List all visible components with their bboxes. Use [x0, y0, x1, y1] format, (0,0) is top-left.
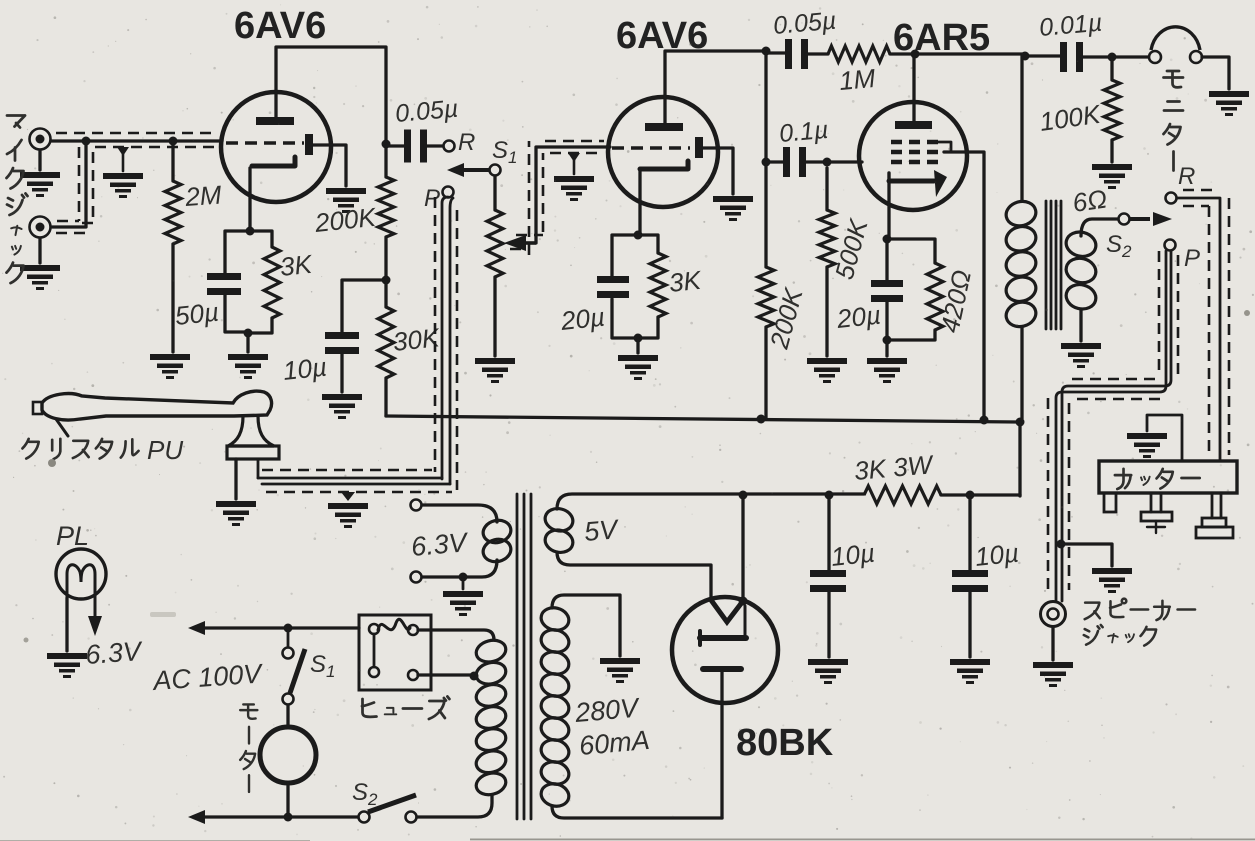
wire plate V2 [665, 51, 766, 123]
shield dashes [435, 197, 457, 490]
svg-text:6AV6: 6AV6 [234, 5, 326, 47]
wire [286, 705, 289, 727]
capacitor 20u V2 [597, 276, 629, 298]
svg-text:50µ: 50µ [173, 297, 220, 331]
wire wiper to V2 grid [536, 147, 610, 243]
wire [52, 141, 86, 227]
svg-text:10µ: 10µ [973, 538, 1020, 572]
label 500K [829, 215, 874, 283]
cutter leg 3 [1196, 493, 1233, 538]
ground [1127, 433, 1167, 458]
wire plate V1 [276, 47, 386, 141]
label 6AV6 V1 [234, 5, 326, 47]
wire [638, 235, 658, 253]
shield dashes [56, 133, 216, 233]
node junction [82, 137, 91, 146]
label S2 mains [352, 779, 378, 809]
ground [1092, 164, 1132, 189]
terminal S1 [490, 165, 501, 176]
label 20u V3 [834, 300, 882, 335]
tube 80BK envelope [672, 597, 778, 703]
node [634, 231, 643, 240]
ground [950, 659, 990, 684]
terminal S2 tap [1119, 214, 1130, 225]
OPT core [1046, 201, 1061, 329]
wire grid V3 [827, 160, 862, 163]
capacitor 0.05u C1 [404, 130, 427, 163]
capacitor 0.01u [1060, 42, 1083, 72]
OPT secondary coil [1064, 229, 1099, 312]
terminal P out [1165, 240, 1176, 251]
wire [885, 239, 888, 280]
capacitor 0.05u C2 [785, 39, 808, 69]
wire [246, 333, 249, 352]
label 6AR5 V3 [893, 17, 990, 59]
rect winding 5V coil [543, 506, 575, 556]
wire [1020, 327, 1023, 419]
wire [384, 280, 387, 307]
wire [493, 277, 496, 356]
wire [313, 145, 346, 186]
wire [1025, 54, 1060, 57]
resistor 2M [165, 181, 181, 244]
80BK filament [711, 600, 743, 622]
wire [885, 302, 888, 340]
svg-text:80BK: 80BK [736, 722, 834, 764]
svg-text:P: P [424, 185, 440, 212]
V3 cathode [889, 170, 947, 197]
svg-text:P: P [1184, 245, 1200, 272]
switch S2 arrow [1130, 212, 1172, 226]
svg-text:3K: 3K [278, 249, 314, 282]
node [284, 813, 293, 822]
tube V2 envelope [608, 97, 718, 207]
wire P down [1056, 251, 1171, 601]
tube V1 6AV6 envelope [221, 92, 331, 202]
V3 screen bracket [938, 142, 951, 152]
ground [1033, 662, 1073, 687]
resistor 1M [828, 46, 890, 62]
resistor 3K V2 [650, 253, 666, 317]
wire [720, 672, 723, 818]
wire [248, 318, 272, 333]
ground [475, 358, 515, 383]
ground [322, 394, 362, 419]
node [246, 227, 255, 236]
resistor 200K V2 [758, 267, 774, 327]
switch S2 mains [359, 795, 417, 823]
shield ground tap [568, 153, 580, 174]
label S2 [1106, 231, 1132, 261]
svg-text:6.3V: 6.3V [410, 527, 471, 562]
label 3K V2 [667, 265, 703, 298]
mic jack J1 [30, 129, 51, 150]
wire [941, 493, 1020, 496]
wire [422, 560, 497, 577]
V2 plate [645, 123, 683, 131]
node [470, 672, 479, 681]
svg-text:20µ: 20µ [558, 302, 606, 337]
svg-text:6.3V: 6.3V [84, 636, 144, 670]
wire [766, 160, 783, 163]
node [762, 158, 771, 167]
wire [422, 505, 497, 522]
node [382, 140, 391, 149]
wire [340, 354, 343, 392]
capacitor 0.1u [783, 147, 806, 177]
label speaker jack [1084, 599, 1195, 646]
wire [417, 795, 492, 817]
PT primary coil [474, 637, 508, 797]
node [966, 491, 975, 500]
label 10u psu1 [829, 538, 876, 572]
node [1021, 52, 1030, 61]
ground [1209, 91, 1249, 116]
wire [384, 237, 387, 280]
ground [554, 176, 594, 201]
wire [225, 231, 250, 273]
shield dashes wiper [510, 141, 604, 255]
V1 diode plate [305, 134, 313, 155]
terminal R out [1166, 193, 1177, 204]
wire [825, 267, 828, 356]
shield dashes [262, 470, 452, 492]
node [823, 158, 832, 167]
wire 5V top [557, 494, 743, 509]
wire B+ rail [386, 416, 1020, 422]
wire [766, 51, 785, 54]
wire [386, 144, 404, 147]
potentiometer [487, 210, 503, 277]
wire [743, 492, 864, 495]
tube V3 envelope [859, 102, 967, 210]
fuse element [378, 619, 410, 630]
label 60mA [578, 725, 651, 761]
svg-text:10µ: 10µ [829, 538, 876, 572]
V1 cathode [252, 157, 295, 166]
wire [418, 630, 494, 640]
ground [1061, 343, 1101, 368]
page edge bottom [0, 839, 1255, 841]
HV winding coil [539, 605, 571, 809]
shield ground tap [117, 147, 129, 171]
ground [216, 501, 256, 526]
node [980, 416, 989, 425]
label 420ohm [935, 267, 977, 335]
wire [804, 160, 827, 163]
shield ground tap [341, 492, 355, 501]
fuse box [359, 615, 431, 690]
wire AC line top [200, 626, 359, 629]
ground [443, 591, 483, 616]
wire HV bottom [552, 806, 722, 818]
wire fuse tap [418, 673, 474, 676]
wire [384, 378, 387, 416]
wire [1061, 544, 1112, 566]
svg-text:3K: 3K [667, 265, 703, 298]
wire [493, 176, 496, 210]
ground [808, 659, 848, 684]
wire [342, 280, 386, 332]
wire PU pair horiz [258, 478, 450, 484]
wire AC line bottom [200, 815, 358, 818]
svg-text:R: R [458, 129, 475, 156]
label R [458, 129, 475, 156]
wire [250, 231, 272, 247]
label cutter [1115, 469, 1200, 489]
capacitor 50u [207, 273, 241, 295]
fuse terminals [369, 624, 418, 680]
ground [103, 173, 143, 198]
wire [234, 459, 237, 499]
shield dashes R [1183, 190, 1229, 455]
node [757, 415, 766, 424]
ground [713, 196, 753, 221]
capacitor 10u psu2 [952, 570, 988, 592]
V1 grid dashes [226, 141, 304, 145]
wire [887, 182, 890, 239]
ground [150, 354, 190, 379]
wire R to cutter [1177, 198, 1220, 461]
node [883, 235, 892, 244]
wire [286, 783, 289, 817]
wire [612, 299, 638, 338]
wire [887, 330, 935, 340]
wire [257, 459, 260, 478]
label crystal PU [22, 435, 183, 465]
label P out [1184, 245, 1200, 272]
capacitor 20u V3 [871, 280, 903, 302]
capacitor 10u decoup [325, 332, 359, 354]
label 5V [583, 514, 621, 547]
label 10u psu2 [973, 538, 1020, 572]
svg-text:6Ω: 6Ω [1071, 183, 1109, 217]
wire [225, 295, 248, 332]
label 200K V1 [312, 202, 378, 238]
V2 grid dashes [612, 146, 690, 150]
wire [764, 162, 767, 267]
svg-text:R: R [1178, 163, 1195, 190]
wire [885, 340, 888, 356]
svg-text:PL: PL [56, 521, 89, 551]
wire [827, 495, 830, 570]
wire cathode V1 [248, 168, 251, 231]
heater coil 6.3V [481, 517, 513, 564]
cutter leg 2 [1141, 493, 1172, 533]
ground [20, 265, 60, 290]
OPT primary coil [1004, 198, 1039, 329]
V2 diode plate [695, 137, 703, 158]
svg-text:PU: PU [147, 435, 183, 465]
label 280V [573, 692, 642, 728]
80BK plate 2 [703, 666, 741, 672]
svg-text:10µ: 10µ [281, 352, 328, 386]
pilot lamp PL [56, 549, 106, 612]
node [883, 336, 892, 345]
svg-text:60mA: 60mA [578, 725, 651, 761]
ground [807, 358, 847, 383]
ground [618, 355, 658, 380]
headphone monitor [1149, 27, 1202, 63]
wire [703, 148, 733, 194]
shielded pair P-PU [442, 197, 453, 484]
wire [638, 317, 658, 338]
wire [38, 150, 41, 170]
V3 grid rows [891, 142, 938, 162]
wire [462, 577, 465, 589]
label fuse [362, 697, 449, 720]
label 50u [173, 297, 220, 331]
wire HV top [552, 595, 620, 656]
AC arrow bottom [188, 810, 205, 824]
wire 6ohm tap [1081, 219, 1118, 236]
paper smudge [24, 310, 1251, 643]
label 1M [838, 63, 877, 96]
node [825, 491, 834, 500]
resistor 3K 3W [864, 486, 941, 504]
label 10u [281, 352, 328, 386]
switch S1 mains [283, 624, 306, 705]
wire 5V bottom [557, 552, 711, 600]
wire [1051, 627, 1054, 660]
wire [1110, 140, 1113, 162]
node [762, 47, 771, 56]
ground [326, 188, 366, 213]
wire plate V3 [914, 54, 1025, 121]
ground [1092, 568, 1132, 593]
label 30K [391, 322, 442, 357]
terminal P [443, 187, 454, 198]
wire [1112, 55, 1149, 58]
wire [890, 52, 915, 55]
cutter leg 1 [1104, 493, 1116, 512]
node [1108, 53, 1117, 62]
wire screen V3 [944, 152, 984, 419]
label 6.3V winding [410, 527, 471, 562]
label 80BK [736, 722, 834, 764]
label S1 mains [310, 651, 335, 681]
svg-text:5V: 5V [583, 514, 621, 547]
resistor 100K [1104, 57, 1120, 140]
resistor 500K [819, 168, 835, 267]
node [1057, 540, 1066, 549]
svg-text:280V: 280V [573, 692, 642, 728]
wire [425, 144, 443, 147]
label 3K V1 [278, 249, 314, 282]
svg-text:0.1µ: 0.1µ [778, 116, 829, 148]
wire [638, 170, 641, 235]
label 0.05u C1 [394, 95, 459, 128]
fuse link [373, 634, 376, 667]
wire [38, 238, 41, 263]
label P [424, 185, 440, 212]
wire [1202, 57, 1229, 89]
speaker jack [1041, 602, 1066, 627]
V2 cathode [640, 161, 688, 169]
ground [20, 172, 60, 197]
V3 plate [895, 121, 932, 129]
terminal R [444, 141, 455, 152]
label PL [56, 521, 89, 551]
label 0.1u [778, 116, 829, 148]
crystal pickup arm [33, 391, 272, 436]
svg-text:0.05µ: 0.05µ [394, 95, 459, 128]
label 100K [1038, 99, 1104, 137]
ground [47, 653, 87, 678]
wire [171, 244, 174, 352]
label 2M [183, 180, 222, 213]
resistor 420ohm [927, 263, 943, 330]
node [634, 334, 643, 343]
svg-text:0.05µ: 0.05µ [772, 7, 837, 40]
switch arrow [447, 163, 489, 177]
wire [968, 495, 971, 570]
V1 plate [256, 117, 294, 125]
node [459, 573, 468, 582]
wire OPT primary top [1020, 56, 1023, 201]
label S1 [492, 137, 517, 167]
wire [827, 592, 830, 657]
wire [764, 51, 767, 162]
label 200K V2 [764, 284, 809, 353]
pickup pivot base [227, 416, 279, 459]
wire [636, 338, 639, 353]
resistor 30K [378, 307, 394, 378]
wire [384, 144, 387, 177]
label 0.05u C2 [772, 7, 837, 40]
label 6ohm [1071, 183, 1109, 217]
ground [228, 354, 268, 379]
wire [764, 327, 767, 419]
label R out [1178, 163, 1195, 190]
label motor [240, 704, 257, 792]
wire [806, 52, 828, 55]
svg-text:20µ: 20µ [834, 300, 882, 335]
wire [1079, 310, 1082, 341]
node [382, 276, 391, 285]
ground [328, 503, 368, 528]
resistor 3K V1 [264, 247, 280, 318]
label mic jack [7, 116, 28, 284]
wire [741, 495, 744, 600]
label monitor [1164, 71, 1184, 171]
terminal 6.3V a [411, 500, 422, 511]
svg-text:1M: 1M [838, 63, 877, 96]
cutter box [1099, 461, 1237, 493]
wire [65, 598, 68, 651]
ground [867, 358, 907, 383]
mic jack J2 [30, 217, 51, 238]
node [244, 329, 253, 338]
pot wiper arrow [504, 235, 536, 251]
label 0.01u [1038, 9, 1103, 42]
wire [51, 139, 222, 142]
node [739, 597, 748, 606]
wire [968, 592, 971, 657]
wire [612, 235, 638, 276]
label 6.3V lamp [84, 636, 144, 670]
label AC 100V [150, 658, 265, 696]
ground [600, 658, 640, 683]
label 6AV6 V2 [616, 15, 708, 57]
wire [1081, 55, 1112, 58]
wire [171, 141, 174, 181]
motor [260, 727, 316, 783]
label 3K 3W [853, 449, 936, 486]
svg-text:0.01µ: 0.01µ [1038, 9, 1103, 42]
capacitor 10u psu1 [810, 570, 846, 592]
node [1016, 418, 1025, 427]
